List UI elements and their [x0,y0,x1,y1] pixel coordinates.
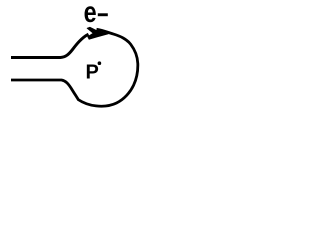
svg-text:e: e [84,0,97,29]
superscript dot of P [98,61,102,65]
svg-text:P: P [86,62,99,84]
arrowhead on circle top (electron direction) [87,27,108,39]
minus sign of e- [98,13,108,16]
background [0,0,150,114]
wire: bottom antenna line curving down, then reaction-center ring (hand-drawn circle, open at left) [11,29,138,106]
wire: top antenna line curving up into circle, ends at arrow [11,34,89,57]
